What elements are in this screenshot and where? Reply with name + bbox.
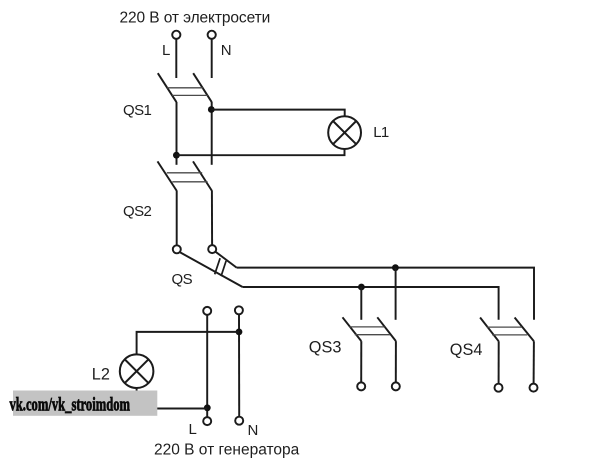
- terminal L (mains input): [172, 31, 180, 39]
- wire: QS4 right output: [533, 341, 535, 383]
- terminal QS3 right: [392, 382, 400, 390]
- svg-text:N: N: [221, 42, 231, 59]
- wire: QS2 N output to transfer contact: [211, 190, 213, 245]
- terminal: QS mains N contact: [208, 245, 216, 253]
- watermark background: [13, 391, 157, 416]
- terminal: QS generator L contact: [203, 307, 211, 315]
- junction dot: N branch to lamp L1: [208, 106, 215, 113]
- svg-text:L: L: [189, 421, 197, 438]
- svg-text:L1: L1: [373, 124, 389, 141]
- switch QS upper blade: [216, 252, 237, 268]
- wire: QS1 L output down to QS2: [176, 102, 178, 165]
- junction dot: L branch to lamp L1: [173, 152, 180, 159]
- terminal QS4 left: [495, 384, 503, 392]
- terminal QS4 right: [530, 384, 538, 392]
- terminal N (mains input): [208, 31, 216, 39]
- wire: generator L riser: [206, 315, 208, 417]
- terminal QS3 left: [357, 382, 365, 390]
- wire: to lamp L2 top: [137, 332, 239, 355]
- svg-text:N: N: [248, 422, 258, 439]
- svg-text:220 В от генератора: 220 В от генератора: [154, 442, 300, 459]
- svg-text:L: L: [162, 42, 170, 59]
- svg-text:QS3: QS3: [309, 339, 342, 357]
- wire: top rail to QS4: [237, 268, 534, 320]
- wire: N input to QS1: [211, 39, 213, 78]
- wire: generator N riser: [238, 314, 240, 416]
- svg-text:QS4: QS4: [450, 341, 483, 359]
- wire: lamp L2 bottom return: [137, 387, 208, 408]
- wire: QS2 L output to transfer contact: [176, 190, 178, 245]
- wire: QS3 right output: [395, 341, 397, 382]
- svg-text:QS2: QS2: [123, 203, 151, 220]
- wire: down to QS3 right pole: [395, 268, 397, 320]
- junction dot: L branch to lamp L2: [204, 404, 211, 411]
- wire: QS4 left output: [498, 341, 500, 383]
- svg-text:QS: QS: [172, 271, 193, 288]
- wire: bottom rail to QS4: [243, 287, 499, 320]
- switch QS3 (double-pole): [343, 317, 396, 341]
- terminal L (generator input): [203, 417, 211, 425]
- wire: QS1 N output down to QS2: [211, 102, 213, 165]
- switch QS2 (double-pole): [158, 161, 212, 190]
- junction dot: top rail to QS3: [392, 264, 399, 271]
- terminal: QS mains L contact: [173, 245, 181, 253]
- svg-text:QS1: QS1: [123, 102, 151, 119]
- wire: to lamp L1 bottom: [176, 149, 344, 155]
- lamp L2: [120, 354, 154, 388]
- wire: to lamp L1 top: [211, 110, 344, 117]
- switch QS4 (double-pole): [480, 318, 534, 342]
- svg-text:vk.com/vk_stroimdom: vk.com/vk_stroimdom: [10, 395, 131, 416]
- switch QS1 (double-pole): [158, 73, 212, 102]
- junction dot: bottom rail to QS3: [358, 284, 365, 291]
- terminal: QS generator N contact: [235, 306, 243, 314]
- lamp L1: [328, 116, 361, 149]
- wire: down to QS3 left pole: [360, 287, 362, 320]
- svg-text:220 В от электросети: 220 В от электросети: [120, 9, 271, 26]
- svg-text:L2: L2: [92, 365, 110, 383]
- switch QS lower blade: [180, 252, 242, 287]
- junction dot: N branch to lamp L2: [236, 329, 243, 336]
- switch QS linkage: [215, 258, 226, 276]
- wire: QS3 left output: [360, 341, 362, 382]
- wire: L input to QS1: [175, 39, 177, 78]
- terminal N (generator input): [235, 417, 243, 425]
